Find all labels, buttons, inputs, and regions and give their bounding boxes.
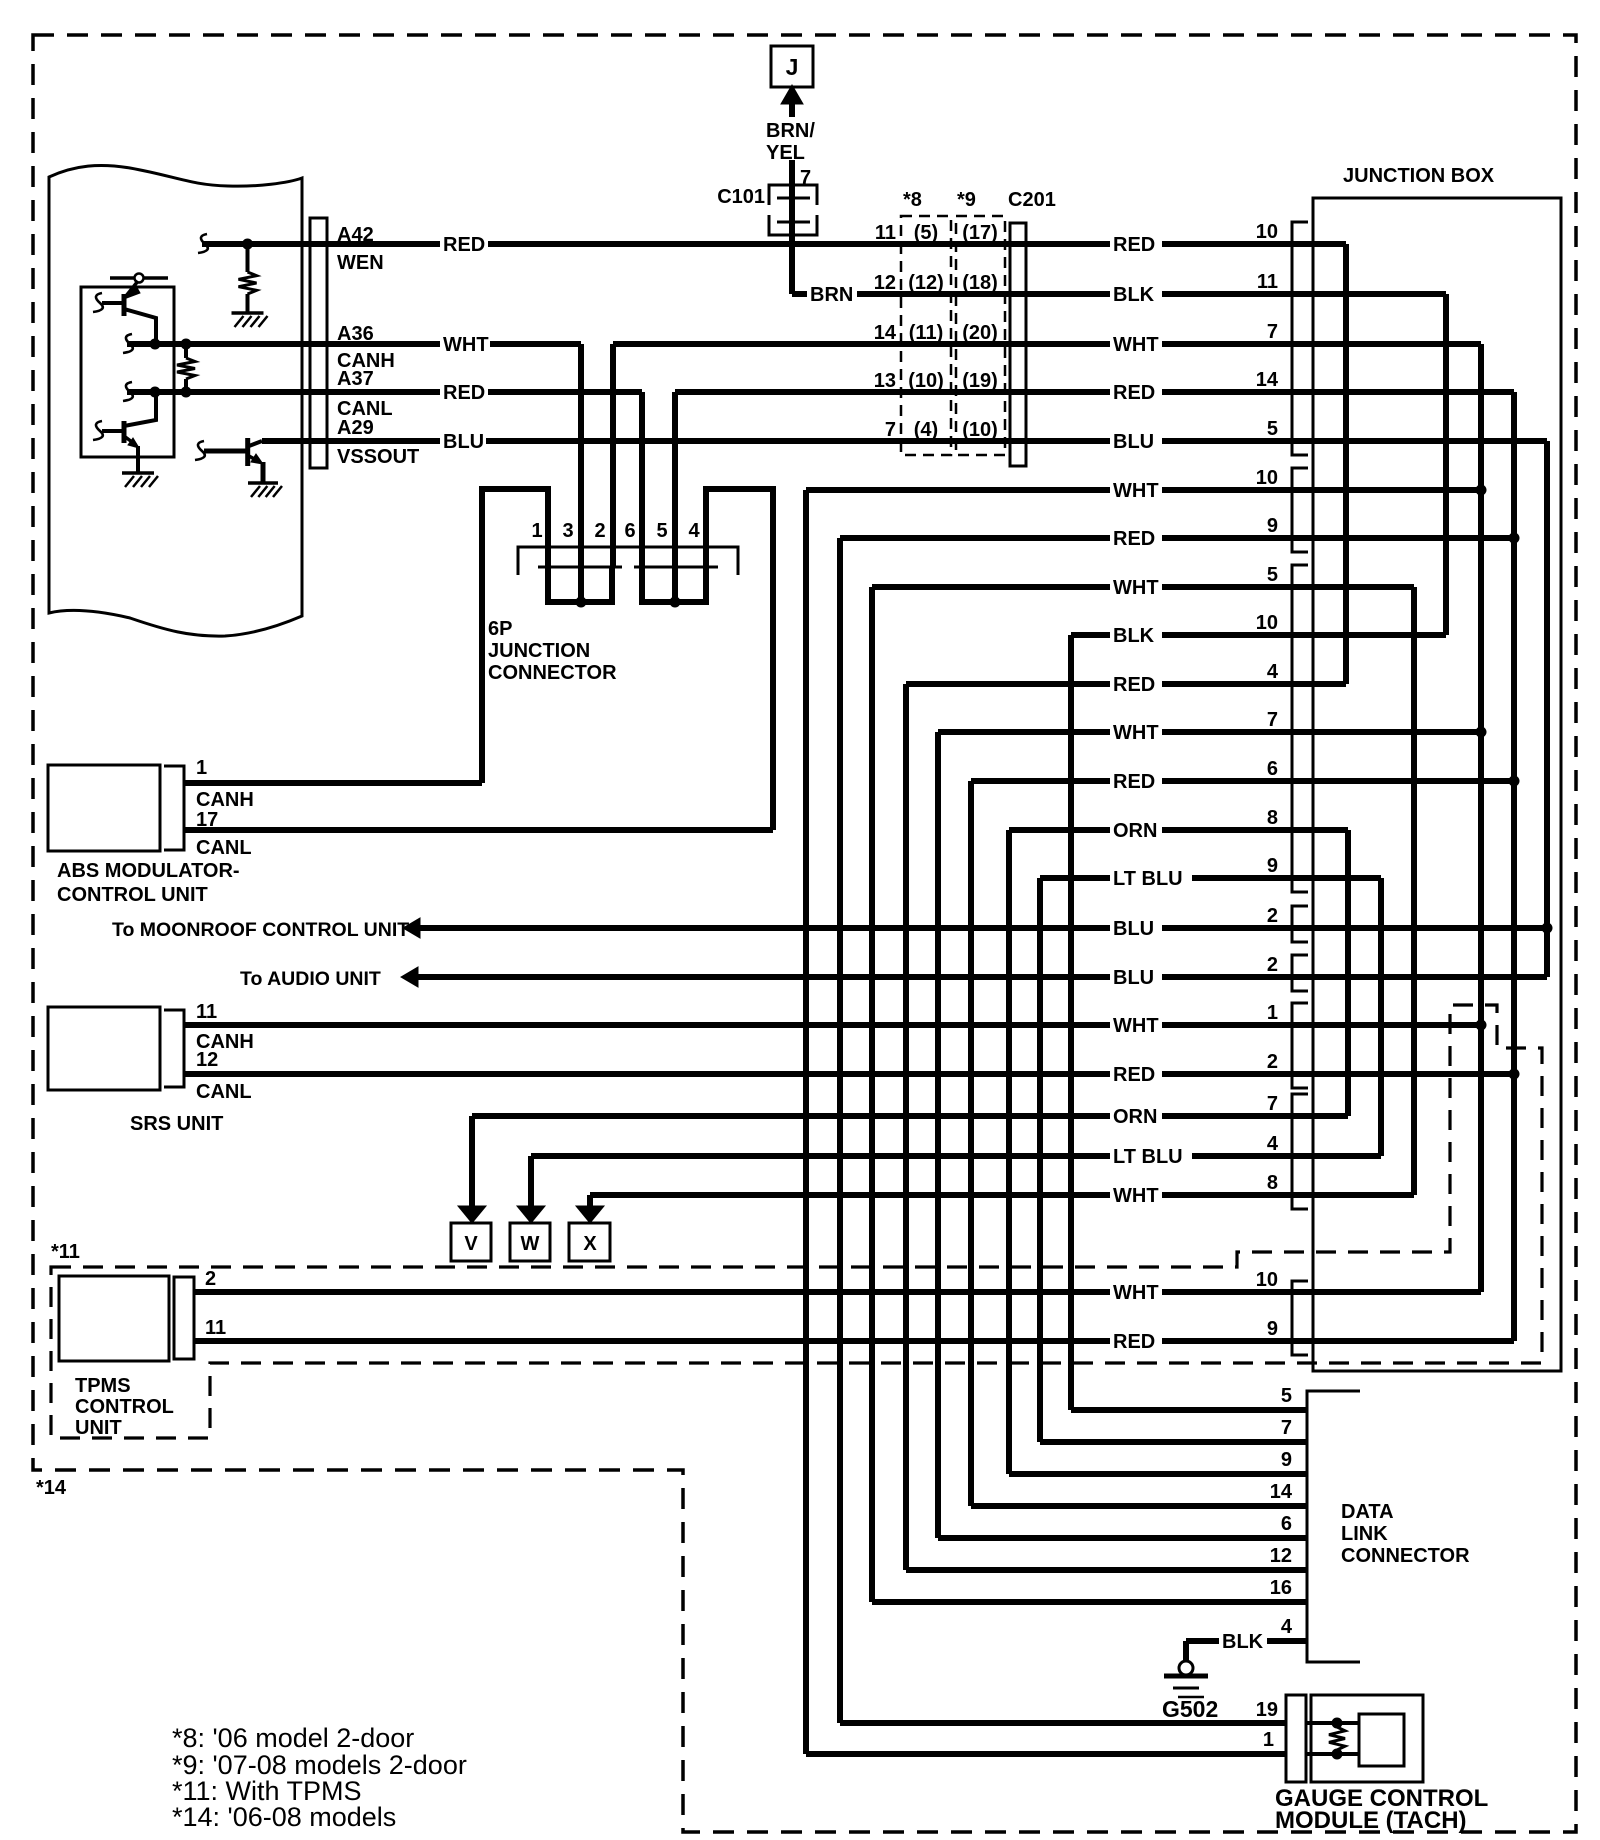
svg-text:WEN: WEN [337, 252, 384, 274]
wire vertical RED to data link pin 14 [968, 781, 974, 1506]
svg-text:14: 14 [1270, 1481, 1293, 1503]
svg-text:(5): (5) [914, 222, 938, 244]
node A42 pull-up resistor [242, 239, 253, 250]
wire 6P pin 6 column [639, 392, 645, 567]
junction box pins 10-5 bracket [1292, 222, 1308, 455]
svg-text:(19): (19) [962, 370, 998, 392]
junction box internal wire pin11-pin10 (BLK) [1443, 294, 1449, 635]
junction box pins 5-9 bracket [1292, 565, 1308, 892]
svg-text:(12): (12) [908, 272, 944, 294]
wire arrow to connector W [528, 1156, 534, 1206]
svg-text:SRS UNIT: SRS UNIT [130, 1113, 223, 1135]
pull-up resistor on WEN [246, 244, 250, 272]
svg-text:C201: C201 [1008, 189, 1056, 211]
wire 6P pin 3 column (WHT CANH) [578, 344, 584, 602]
wire vertical WHT to data link pin 6 [935, 732, 941, 1538]
wire gauge module pin 1 [806, 1751, 1286, 1757]
svg-text:A37: A37 [337, 368, 374, 390]
svg-text:11: 11 [875, 222, 896, 244]
wire vertical RED to data link pin 12 [903, 684, 909, 1570]
svg-text:*9: *9 [957, 189, 976, 211]
wire junction box pin 9 LT BLU row [1040, 875, 1381, 881]
junction box outline [1313, 198, 1561, 1371]
connector C201 strip [1010, 223, 1026, 466]
svg-text:(10): (10) [908, 370, 944, 392]
svg-text:14: 14 [1256, 369, 1279, 391]
svg-text:*14: *14 [36, 1477, 67, 1499]
wire 6P pin 4 loop from ABS CANL [706, 489, 773, 830]
junction box internal wire LT BLU pin9-pin4 vertical [1378, 878, 1384, 1156]
power circle node [135, 274, 144, 283]
wire connector X to box pin 8 (WHT) [590, 1192, 1414, 1198]
wire CANH junction connector to box pin 7 (WHT) [613, 341, 1481, 347]
junction box pins 7-8 bracket [1292, 1094, 1308, 1209]
wire CANL junction connector to box pin 14 (RED) [675, 389, 1514, 395]
wire connector W to box pin 4 (LT BLU) [531, 1153, 1381, 1159]
SRS connector bracket [164, 1010, 184, 1087]
wire SRS CANL pin 12 to box pin 2 (RED) [184, 1071, 1514, 1077]
J box (connector symbol) [771, 46, 813, 87]
svg-text:9: 9 [1267, 515, 1278, 537]
gauge control module box [1311, 1695, 1423, 1782]
svg-text:11: 11 [1257, 271, 1278, 293]
junction box pins 1-2 bracket [1292, 1003, 1308, 1088]
svg-text:12: 12 [196, 1049, 218, 1071]
gauge module wires to meter [1306, 1721, 1359, 1725]
svg-text:TPMS: TPMS [75, 1375, 131, 1397]
label BRN on C101 wire [807, 285, 857, 307]
svg-text:*11: *11 [51, 1241, 80, 1263]
svg-text:4: 4 [1281, 1616, 1293, 1638]
label BLK data link ground wire [1219, 1632, 1267, 1654]
svg-text:2: 2 [594, 520, 605, 542]
svg-text:7: 7 [885, 419, 896, 441]
svg-text:3: 3 [562, 520, 573, 542]
wire arrow to connector V [469, 1116, 475, 1206]
svg-text:6: 6 [624, 520, 635, 542]
svg-text:*14: '06-08 models: *14: '06-08 models [172, 1802, 396, 1832]
svg-text:6: 6 [1267, 758, 1278, 780]
wire junction box pin 6 RED row [971, 778, 1514, 784]
svg-text:6: 6 [1281, 1513, 1292, 1535]
svg-text:CONTROL: CONTROL [75, 1396, 174, 1418]
wire junction box pin 7 WHT row [938, 729, 1481, 735]
junction box pin 2 bracket [1292, 906, 1308, 942]
arrowhead to moonroof control unit [403, 918, 420, 938]
ground below transistor Q3 [248, 481, 278, 485]
svg-text:BLU: BLU [1113, 431, 1154, 453]
svg-text:1: 1 [1263, 1729, 1274, 1751]
junction box pin 2 bracket b [1292, 955, 1308, 991]
gauge module connector bracket [1286, 1695, 1306, 1782]
svg-text:CONTROL UNIT: CONTROL UNIT [57, 884, 208, 906]
wire A36 CANH left segment (WHT) [127, 341, 581, 347]
svg-text:(17): (17) [962, 222, 998, 244]
svg-text:BLK: BLK [1113, 625, 1155, 647]
connector W box [510, 1223, 550, 1261]
wire to audio unit (BLU) [416, 974, 1547, 980]
gauge internal meter box [1359, 1714, 1404, 1766]
svg-text:6P: 6P [488, 618, 512, 640]
svg-text:10: 10 [1256, 1269, 1278, 1291]
6P junction connector body [518, 547, 738, 575]
svg-text:2: 2 [1267, 954, 1278, 976]
svg-text:G502: G502 [1162, 1696, 1218, 1722]
svg-text:7: 7 [1267, 709, 1278, 731]
node CANL transistor [150, 387, 161, 398]
svg-text:X: X [583, 1233, 597, 1255]
wire junction box pin 5 WHT row [872, 584, 1414, 590]
svg-text:1: 1 [196, 757, 207, 779]
dashed option region *11 (TPMS wiring boundary) [51, 1005, 1542, 1438]
svg-text:(4): (4) [914, 419, 938, 441]
svg-text:WHT: WHT [1113, 1282, 1159, 1304]
wire junction box pin 4 RED row [906, 681, 1346, 687]
dashed connector box *9 [956, 216, 1005, 455]
arrowhead into connector X [576, 1206, 604, 1223]
svg-text:2: 2 [1267, 905, 1278, 927]
ground G502 [1183, 1641, 1189, 1661]
wire continuation hook A42 [198, 234, 208, 253]
svg-text:LT BLU: LT BLU [1113, 868, 1183, 890]
node gauge resistor top [1332, 1718, 1343, 1729]
svg-text:BLU: BLU [1113, 918, 1154, 940]
wire 6P pin 2 column [610, 344, 616, 567]
wire junction box pin 10 WHT row [806, 487, 1481, 493]
svg-text:RED: RED [1113, 1331, 1155, 1353]
svg-text:10: 10 [1256, 467, 1278, 489]
svg-text:7: 7 [800, 167, 811, 189]
svg-text:BLU: BLU [1113, 967, 1154, 989]
ECM/PCM unit box (torn edges) [49, 165, 302, 636]
svg-text:BRN: BRN [810, 284, 853, 306]
svg-text:1: 1 [1267, 1002, 1278, 1024]
wire TPMS pin 11 to box pin 9 (RED) [193, 1338, 1514, 1344]
connector C101 symbol [769, 185, 817, 205]
transistor Q1 (upper) [122, 294, 127, 316]
wire vertical LT BLU to data link pin 7 [1037, 878, 1043, 1442]
svg-text:CANL: CANL [196, 1081, 252, 1103]
svg-text:WHT: WHT [1113, 1185, 1159, 1207]
svg-text:WHT: WHT [443, 334, 489, 356]
TPMS control unit box [59, 1276, 169, 1361]
svg-text:VSSOUT: VSSOUT [337, 446, 419, 468]
svg-text:WHT: WHT [1113, 577, 1159, 599]
gauge module resistor [1329, 1727, 1345, 1750]
svg-text:RED: RED [1113, 528, 1155, 550]
junction box internal wire WHT net vertical [1478, 344, 1484, 1292]
wire junction box pin 10 BLK row [1071, 632, 1446, 638]
svg-text:7: 7 [1281, 1417, 1292, 1439]
svg-text:9: 9 [1267, 855, 1278, 877]
svg-text:RED: RED [443, 234, 485, 256]
svg-text:CONNECTOR: CONNECTOR [488, 662, 617, 684]
wire 6P pin 5 column (RED CANL) [672, 392, 678, 602]
svg-text:A29: A29 [337, 417, 374, 439]
node 6P left bar [576, 597, 587, 608]
svg-text:RED: RED [1113, 234, 1155, 256]
svg-text:BRN/: BRN/ [766, 120, 815, 142]
node WHT pin1 row [1476, 1020, 1487, 1031]
svg-text:LT BLU: LT BLU [1113, 1146, 1183, 1168]
svg-text:(18): (18) [962, 272, 998, 294]
svg-text:16: 16 [1270, 1577, 1292, 1599]
wire vertical ORN to data link pin 9 [1006, 830, 1012, 1474]
svg-text:14: 14 [874, 322, 897, 344]
label RED on WEN wire [440, 235, 488, 257]
wire arrow to connector X [587, 1195, 593, 1206]
6P junction connector right shorting bar [642, 567, 706, 602]
svg-text:CONNECTOR: CONNECTOR [1341, 1545, 1470, 1567]
svg-text:BLK: BLK [1113, 284, 1155, 306]
node RED pin9/pin14 [1509, 533, 1520, 544]
ABS connector bracket [164, 766, 184, 850]
svg-text:11: 11 [205, 1317, 226, 1339]
svg-text:(10): (10) [962, 419, 998, 441]
svg-text:5: 5 [1267, 564, 1278, 586]
svg-text:RED: RED [1113, 771, 1155, 793]
wire data link connector pin 7 [1040, 1439, 1307, 1445]
svg-text:(20): (20) [962, 322, 998, 344]
wire to moonroof control unit (BLU) [418, 925, 1547, 931]
arrowhead into connector V [458, 1206, 486, 1223]
wire continuation hook CANL [123, 382, 133, 401]
svg-text:4: 4 [1267, 1133, 1279, 1155]
junction box internal wire ORN pin8-pin7 vertical [1345, 830, 1351, 1116]
label BLU on VSSOUT wire [440, 432, 486, 454]
junction box pins 10-9 TPMS bracket [1292, 1281, 1308, 1355]
node WHT pin10/pin7 [1476, 485, 1487, 496]
node 6P right bar [670, 597, 681, 608]
junction box internal wire RED net vertical [1511, 392, 1517, 1341]
svg-text:17: 17 [196, 809, 218, 831]
svg-text:UNIT: UNIT [75, 1417, 122, 1439]
svg-text:ORN: ORN [1113, 1106, 1157, 1128]
node gauge resistor bottom [1332, 1749, 1343, 1760]
node RED pin2 row [1509, 1069, 1520, 1080]
internal circuit box [81, 287, 174, 457]
svg-text:9: 9 [1281, 1449, 1292, 1471]
svg-text:4: 4 [688, 520, 700, 542]
svg-text:2: 2 [1267, 1051, 1278, 1073]
svg-text:4: 4 [1267, 661, 1279, 683]
wire WEN A42 to junction box pin 10 (RED) [202, 241, 1346, 247]
wire data link connector pin 4 (BLK) to ground [1186, 1638, 1307, 1644]
wire junction box pin 9 RED row [840, 535, 1514, 541]
label WHT on CANH wire [440, 335, 490, 357]
wire vertical BLK to data link pin 5 [1068, 635, 1074, 1410]
wire junction box pin 8 ORN row [1009, 827, 1348, 833]
wire A37 CANL left segment (RED) [127, 389, 642, 395]
connector V box [451, 1223, 491, 1261]
svg-text:ORN: ORN [1113, 820, 1157, 842]
svg-text:BLU: BLU [443, 431, 484, 453]
svg-text:A42: A42 [337, 224, 374, 246]
label RED on CANL wire [440, 383, 488, 405]
svg-text:7: 7 [1267, 321, 1278, 343]
svg-text:V: V [464, 1233, 478, 1255]
svg-text:A36: A36 [337, 323, 374, 345]
svg-text:LINK: LINK [1341, 1523, 1388, 1545]
svg-text:8: 8 [1267, 807, 1278, 829]
svg-text:7: 7 [1267, 1093, 1278, 1115]
junction box pins 10-9 bracket [1292, 468, 1308, 552]
svg-text:2: 2 [205, 1268, 216, 1290]
svg-text:ABS MODULATOR-: ABS MODULATOR- [57, 860, 240, 882]
svg-text:5: 5 [656, 520, 667, 542]
TPMS connector bracket [174, 1277, 194, 1359]
svg-text:JUNCTION: JUNCTION [488, 640, 590, 662]
svg-text:RED: RED [443, 382, 485, 404]
wire vertical RED to gauge module pin 19 [837, 538, 843, 1723]
wire ABS CANL pin 17 to 6P connector [184, 827, 773, 833]
svg-text:To AUDIO UNIT: To AUDIO UNIT [240, 968, 381, 990]
arrowhead to audio unit [401, 967, 418, 987]
svg-text:13: 13 [874, 370, 896, 392]
SRS unit box [48, 1007, 160, 1090]
wire VSSOUT A29 to junction box pin 5 (BLU) [262, 438, 1547, 444]
svg-text:1: 1 [531, 520, 542, 542]
data link connector bracket [1307, 1391, 1360, 1662]
ground below transistor Q2 [122, 471, 154, 475]
svg-text:11: 11 [196, 1001, 217, 1023]
wire continuation hook CANH [123, 334, 133, 353]
svg-text:YEL: YEL [766, 142, 805, 164]
ECM connector strip [310, 218, 327, 468]
wire data link connector pin 16 [872, 1599, 1307, 1605]
svg-text:10: 10 [1256, 612, 1278, 634]
wire data link connector pin 9 [1009, 1471, 1307, 1477]
svg-text:10: 10 [1256, 221, 1278, 243]
transistor Q2 (lower) [122, 421, 127, 443]
wire data link connector pin 14 [971, 1503, 1307, 1509]
svg-text:BLK: BLK [1222, 1631, 1264, 1653]
wire 6P pin 1 loop from ABS CANH [482, 489, 548, 783]
dashed connector box *8 [901, 216, 951, 455]
junction box internal wire BLU net vertical [1544, 441, 1550, 977]
junction box internal wire pin10-pin4 (RED) [1343, 244, 1349, 684]
svg-text:CANL: CANL [196, 837, 252, 859]
svg-text:8: 8 [1267, 1172, 1278, 1194]
connector X box [569, 1223, 610, 1261]
svg-text:WHT: WHT [1113, 1015, 1159, 1037]
wire from J connector through C101 (BRN/YEL) [789, 98, 795, 117]
wire data link connector pin 5 [1071, 1407, 1307, 1413]
svg-text:JUNCTION BOX: JUNCTION BOX [1343, 165, 1495, 187]
svg-text:WHT: WHT [1113, 722, 1159, 744]
labels wire colors at junction box [1110, 235, 1162, 257]
wire data link connector pin 12 [906, 1567, 1307, 1573]
terminating resistor CANH-CANL [184, 344, 188, 358]
transistor Q3 (VSSOUT driver) [245, 438, 250, 466]
svg-text:RED: RED [1113, 382, 1155, 404]
wire SRS CANH pin 11 to box pin 1 (WHT) [184, 1022, 1481, 1028]
6P junction connector left shorting bar [548, 567, 612, 602]
svg-text:19: 19 [1256, 1699, 1278, 1721]
svg-text:RED: RED [1113, 1064, 1155, 1086]
arrowhead into connector W [517, 1206, 545, 1223]
node CANH resistor [181, 339, 192, 350]
ABS modulator box [48, 765, 160, 851]
svg-text:W: W [521, 1233, 540, 1255]
svg-text:9: 9 [1267, 1318, 1278, 1340]
svg-text:RED: RED [1113, 674, 1155, 696]
svg-text:12: 12 [874, 272, 896, 294]
wire BRN to junction box pin 11 [792, 291, 1446, 297]
svg-text:DATA: DATA [1341, 1501, 1394, 1523]
svg-text:CANH: CANH [196, 789, 254, 811]
svg-text:12: 12 [1270, 1545, 1292, 1567]
svg-text:5: 5 [1267, 418, 1278, 440]
wire ABS CANH pin 1 to 6P connector [184, 780, 482, 786]
svg-text:5: 5 [1281, 1385, 1292, 1407]
node BLU pins2 [1542, 923, 1553, 934]
wire vertical WHT to data link pin 16 [869, 587, 875, 1602]
wire TPMS pin 2 to box pin 10 (WHT) [193, 1289, 1481, 1295]
svg-text:*8: *8 [903, 189, 922, 211]
junction box internal wire WHT pin5-pin8 vertical [1411, 587, 1417, 1195]
wire connector V to box pin 7 (ORN) [472, 1113, 1348, 1119]
ground below WEN resistor [232, 311, 264, 315]
svg-text:To MOONROOF CONTROL UNIT: To MOONROOF CONTROL UNIT [112, 919, 409, 941]
node WHT pin7 row [1476, 727, 1487, 738]
svg-text:(11): (11) [909, 322, 943, 344]
svg-text:*8: '06 model 2-door: *8: '06 model 2-door [172, 1723, 414, 1753]
arrowhead into J connector [781, 85, 803, 104]
node RED pin6 row [1509, 776, 1520, 787]
wire data link connector pin 6 [938, 1535, 1307, 1541]
wire vertical WHT to gauge module pin 1 [803, 490, 809, 1754]
wire gauge module pin 19 [840, 1720, 1286, 1726]
svg-text:J: J [786, 54, 799, 80]
svg-text:WHT: WHT [1113, 334, 1159, 356]
node CANL resistor [181, 387, 192, 398]
svg-text:C101: C101 [717, 186, 765, 208]
svg-text:MODULE (TACH): MODULE (TACH) [1275, 1807, 1467, 1834]
node CANH transistor [150, 339, 161, 350]
svg-text:WHT: WHT [1113, 480, 1159, 502]
